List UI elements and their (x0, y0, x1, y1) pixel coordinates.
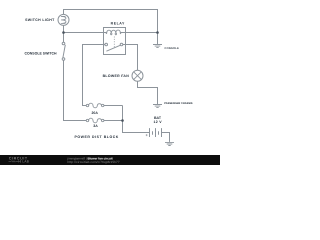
svg-text:SWITCH LIGHT: SWITCH LIGHT (25, 18, 55, 22)
wire relay contact to blower fan (123, 45, 138, 71)
wire coil right lead (126, 32, 158, 34)
node junction fuse bus (121, 119, 124, 122)
svg-text:20A: 20A (91, 111, 98, 115)
footer bar (0, 155, 220, 165)
fan motor BLOWER FAN (132, 70, 143, 81)
wire fuse 20A feed up to relay contact (83, 45, 105, 106)
footer logo LAB row (9, 161, 19, 163)
ground CONSOLE (153, 45, 162, 48)
battery plus sign (146, 134, 148, 136)
svg-text:3A: 3A (93, 124, 98, 128)
relay coil (104, 30, 126, 35)
svg-text:http://circuitlab.com/c/76qp8r: http://circuitlab.com/c/76qp8rz5h77 (68, 160, 120, 164)
wire fuse 3A right lead to bus (104, 120, 123, 122)
node junction lamp-coil (62, 31, 65, 34)
relay link dashed (113, 37, 115, 48)
fuse F1 20A (86, 103, 104, 108)
battery BAT 12V plates (150, 128, 162, 137)
wire lamp bottom to coil junction (63, 25, 65, 32)
wire fuse 20A right lead to bus (104, 105, 123, 107)
ground battery negative (165, 142, 174, 145)
node junction coil-console ground (156, 31, 159, 34)
svg-text:LAB: LAB (22, 160, 29, 164)
ground PASSENGER CHASSIS (153, 105, 162, 108)
fuse F2 3A (86, 118, 104, 123)
wire switch down to fuse 3A (64, 60, 87, 120)
wire top loop lamp to console bus (64, 10, 158, 33)
svg-text:POWER DIST BLOCK: POWER DIST BLOCK (75, 135, 119, 139)
svg-text:CONSOLE: CONSOLE (165, 47, 180, 50)
wire junction down to console switch (63, 33, 65, 43)
svg-text:12 V: 12 V (153, 120, 162, 124)
svg-text:CONSOLE SWITCH: CONSOLE SWITCH (25, 52, 58, 56)
wire fan to passenger ground (138, 81, 158, 104)
wire coil left lead (64, 32, 104, 34)
svg-text:BLOWER FAN: BLOWER FAN (103, 74, 130, 78)
lamp SWITCH LIGHT (58, 14, 69, 25)
wire battery minus to ground (162, 133, 170, 142)
switch CONSOLE SWITCH (62, 42, 65, 60)
svg-text:RELAY: RELAY (111, 22, 125, 26)
wire console ground stem (157, 33, 159, 45)
relay K1 box (104, 28, 126, 55)
svg-text:PASSENGER CHASSIS: PASSENGER CHASSIS (164, 102, 193, 105)
relay contact blade (106, 45, 120, 51)
wire right bus down to battery plus (123, 106, 150, 133)
relay contact terminals (105, 43, 123, 51)
